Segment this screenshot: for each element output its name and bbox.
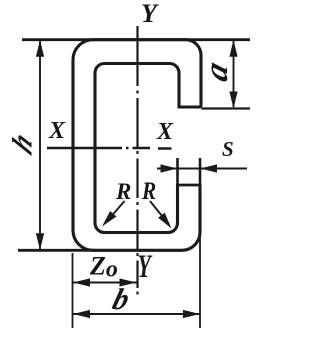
svg-text:Zo: Zo xyxy=(89,252,118,283)
svg-text:Y: Y xyxy=(138,249,154,286)
a bottom extension line xyxy=(202,107,251,109)
svg-text:X: X xyxy=(156,119,174,145)
bottom lip extension stubs above cut xyxy=(178,158,201,185)
top extension line (h top / a top) xyxy=(22,38,250,41)
bottom lip end cut xyxy=(176,184,202,187)
channel profile outer contour xyxy=(73,40,201,251)
dimension line z0 xyxy=(73,282,137,284)
dimension line b xyxy=(73,313,200,315)
dimension line a xyxy=(233,41,235,107)
channel profile inner contour xyxy=(95,64,179,233)
left extension line (z0 / b) xyxy=(72,253,74,328)
horizontal centerline X-X (dash-dot) xyxy=(47,147,172,150)
dimension line h xyxy=(39,41,41,249)
dimension line s xyxy=(157,168,247,170)
svg-text:Y: Y xyxy=(141,0,159,28)
svg-text:R: R xyxy=(141,177,156,205)
top lip end cut xyxy=(178,106,202,109)
svg-text:S: S xyxy=(222,137,234,161)
radius leader arrow left R xyxy=(106,201,125,223)
radius leader arrow right R xyxy=(150,201,169,224)
bottom extension line (h bottom) xyxy=(18,249,95,252)
vertical centerline Y (dash-dot) xyxy=(136,26,138,295)
svg-text:R: R xyxy=(115,179,131,204)
right extension line (b) xyxy=(199,236,201,328)
svg-text:X: X xyxy=(48,118,66,144)
